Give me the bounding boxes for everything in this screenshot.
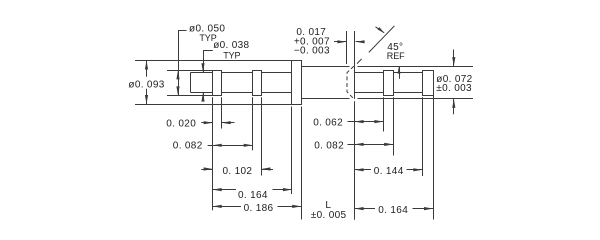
svg-text:0. 164: 0. 164	[378, 205, 408, 216]
svg-text:0. 144: 0. 144	[374, 166, 404, 177]
svg-text:ø0. 093: ø0. 093	[128, 79, 164, 90]
svg-text:0. 186: 0. 186	[244, 203, 274, 214]
svg-text:±0. 005: ±0. 005	[311, 210, 347, 221]
svg-text:ø0. 038: ø0. 038	[213, 40, 249, 51]
svg-text:REF: REF	[387, 51, 405, 61]
svg-text:0. 062: 0. 062	[313, 117, 343, 128]
svg-text:0. 164: 0. 164	[238, 190, 268, 201]
svg-text:0. 020: 0. 020	[166, 118, 196, 129]
svg-text:TYP: TYP	[223, 51, 240, 61]
svg-text:0. 102: 0. 102	[223, 166, 253, 177]
svg-text:±0. 003: ±0. 003	[436, 83, 472, 94]
svg-text:0. 082: 0. 082	[314, 140, 344, 151]
svg-text:−0. 003: −0. 003	[294, 46, 330, 57]
svg-text:0. 082: 0. 082	[173, 140, 203, 151]
